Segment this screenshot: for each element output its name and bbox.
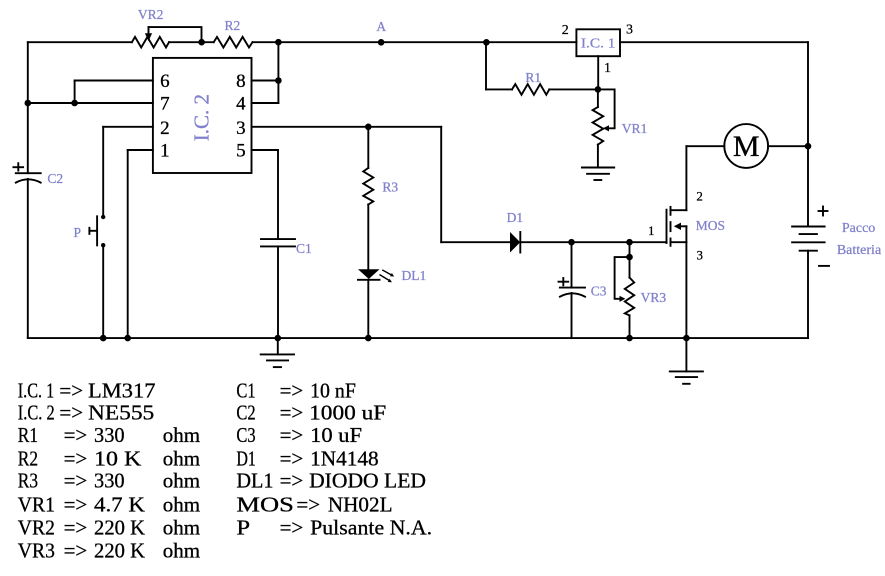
svg-text:Pulsante N.A.: Pulsante N.A. — [310, 515, 432, 539]
svg-text:P: P — [73, 225, 81, 240]
svg-text:DL1: DL1 — [236, 469, 273, 493]
svg-text:3: 3 — [696, 248, 703, 263]
svg-text:I.C. 1: I.C. 1 — [581, 35, 616, 50]
svg-text:=>: => — [280, 401, 304, 425]
svg-text:P: P — [236, 515, 250, 539]
svg-text:R3: R3 — [18, 469, 38, 493]
svg-text:VR2: VR2 — [138, 7, 164, 22]
svg-text:330: 330 — [94, 469, 125, 493]
svg-text:1: 1 — [160, 141, 170, 162]
svg-text:2: 2 — [696, 189, 703, 204]
svg-text:VR3: VR3 — [641, 290, 667, 305]
svg-text:3: 3 — [236, 118, 246, 139]
svg-text:C2: C2 — [236, 401, 255, 425]
svg-text:=>: => — [64, 538, 88, 562]
svg-text:=>: => — [64, 515, 88, 539]
svg-text:=>: => — [64, 423, 88, 447]
svg-text:ohm: ohm — [163, 538, 200, 562]
svg-text:VR1: VR1 — [622, 121, 648, 136]
svg-text:2: 2 — [562, 23, 569, 38]
svg-text:A: A — [376, 19, 386, 34]
svg-text:R1: R1 — [525, 70, 541, 85]
svg-text:5: 5 — [236, 141, 246, 162]
svg-text:VR2: VR2 — [18, 515, 55, 539]
svg-text:1000 uF: 1000 uF — [309, 401, 386, 425]
svg-text:1: 1 — [648, 223, 655, 238]
svg-text:ohm: ohm — [163, 469, 200, 493]
svg-text:NE555: NE555 — [88, 401, 154, 425]
svg-text:220 K: 220 K — [94, 538, 145, 562]
svg-text:=>: => — [59, 379, 83, 403]
svg-text:MOS: MOS — [236, 493, 294, 517]
svg-text:C1: C1 — [296, 241, 312, 256]
svg-text:D1: D1 — [507, 210, 524, 225]
svg-text:220 K: 220 K — [94, 515, 145, 539]
svg-text:C3: C3 — [236, 423, 255, 447]
svg-text:R2: R2 — [18, 446, 38, 470]
svg-text:=>: => — [64, 493, 88, 517]
svg-text:4.7 K: 4.7 K — [94, 493, 145, 517]
svg-text:7: 7 — [160, 94, 170, 115]
svg-text:M: M — [733, 130, 760, 163]
svg-text:ohm: ohm — [163, 515, 200, 539]
svg-text:I.C. 2: I.C. 2 — [190, 94, 214, 141]
svg-text:=>: => — [64, 446, 88, 470]
svg-text:6: 6 — [160, 71, 170, 92]
svg-text:=>: => — [280, 515, 304, 539]
svg-text:I.C. 2: I.C. 2 — [18, 401, 55, 425]
svg-text:R3: R3 — [382, 179, 398, 194]
svg-text:=>: => — [280, 379, 304, 403]
svg-text:D1: D1 — [236, 446, 256, 470]
svg-text:VR1: VR1 — [18, 493, 55, 517]
svg-text:Batteria: Batteria — [837, 243, 882, 258]
svg-text:R2: R2 — [225, 18, 241, 33]
svg-text:=>: => — [280, 423, 304, 447]
svg-text:VR3: VR3 — [18, 538, 55, 562]
svg-text:DL1: DL1 — [402, 268, 427, 283]
svg-text:MOS: MOS — [696, 218, 725, 233]
svg-text:2: 2 — [160, 118, 170, 139]
svg-text:=>: => — [59, 401, 83, 425]
svg-text:=>: => — [64, 469, 88, 493]
svg-text:R1: R1 — [18, 423, 38, 447]
svg-text:=>: => — [280, 446, 304, 470]
svg-text:=>: => — [280, 469, 304, 493]
svg-text:ohm: ohm — [163, 446, 200, 470]
svg-text:10 uF: 10 uF — [310, 423, 362, 447]
svg-text:LM317: LM317 — [88, 379, 156, 403]
svg-text:DIODO LED: DIODO LED — [309, 469, 426, 493]
svg-text:8: 8 — [236, 71, 246, 92]
svg-text:C2: C2 — [47, 171, 63, 186]
svg-text:1N4148: 1N4148 — [310, 446, 379, 470]
svg-text:I.C. 1: I.C. 1 — [18, 379, 54, 403]
svg-text:10 K: 10 K — [94, 446, 141, 470]
svg-text:C3: C3 — [591, 283, 607, 298]
svg-text:NH02L: NH02L — [328, 493, 393, 517]
svg-text:330: 330 — [94, 423, 125, 447]
svg-text:Pacco: Pacco — [842, 221, 875, 236]
svg-text:C1: C1 — [236, 379, 255, 403]
svg-text:ohm: ohm — [163, 423, 200, 447]
svg-text:3: 3 — [626, 23, 633, 38]
svg-text:4: 4 — [236, 94, 246, 115]
svg-text:ohm: ohm — [163, 493, 200, 517]
svg-text:=>: => — [296, 493, 320, 517]
svg-text:1: 1 — [604, 61, 611, 76]
svg-text:10 nF: 10 nF — [310, 379, 356, 403]
